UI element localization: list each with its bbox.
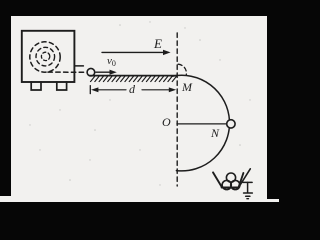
ground bar tiny [247,198,249,200]
label M [182,80,192,95]
scanned page background [0,0,279,202]
radius line O to N [177,123,226,125]
left black strip [0,0,11,196]
particle at N [227,120,235,128]
v0 arrow [96,70,117,75]
collector cup bottom [222,187,239,189]
label v0 [107,55,116,68]
electron source box [22,31,75,82]
label N [211,126,219,141]
collected ball bottom-right [231,180,240,189]
ground lead crossbar [243,181,252,183]
plate top line [90,75,177,77]
particle at plate start [87,68,95,76]
exit port stub [75,65,84,67]
dashed spiral outer turn [30,42,60,72]
collector cup right wall [239,173,244,188]
semicircular particle path [172,75,230,171]
plate hatching [91,76,177,82]
collected ball top [226,173,235,182]
label O [162,115,171,130]
ground bar short [246,195,250,197]
dashed exit line from spiral to particle [48,71,87,73]
ground bar long [244,192,253,194]
box left foot [31,82,41,90]
collected ball bottom-left [222,180,231,189]
E field arrow [102,50,171,55]
label E [154,36,162,52]
label d [129,82,135,97]
dashed spiral inner turn [41,52,49,60]
dashed boundary line of field region [176,33,178,186]
electrode diagonal wire [240,169,251,186]
d dimension left tick [89,86,91,94]
ground lead vertical [247,182,249,192]
dashed spiral middle turn [36,47,55,66]
collector cup left wall [213,172,222,187]
scan speckles [29,21,250,185]
d dimension left arrow [91,87,126,92]
small dashed arc above M [178,64,186,75]
top black band [0,0,279,16]
right black strip [267,0,279,199]
box right foot [57,82,67,90]
d dimension right arrow [142,87,176,92]
